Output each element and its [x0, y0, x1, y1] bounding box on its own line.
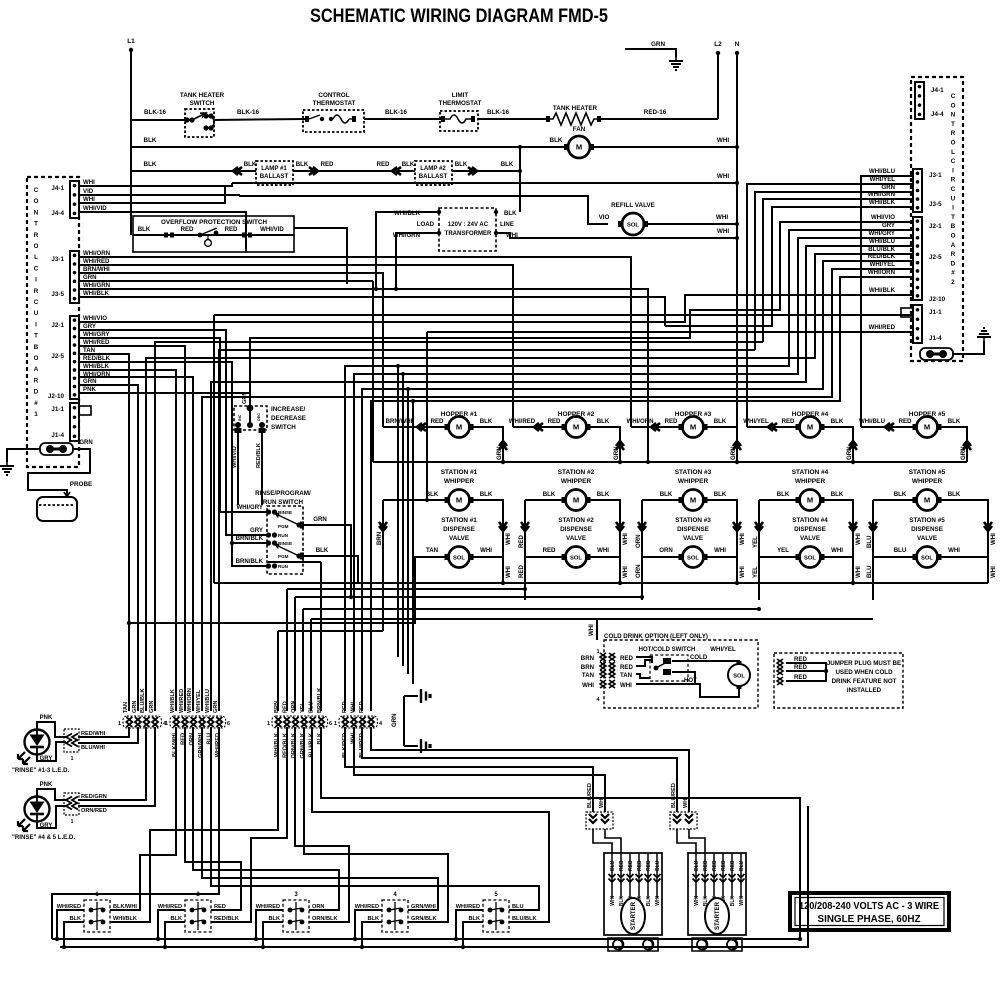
wire connector3 pin 1 to switch 1 [110, 727, 278, 922]
wire hopper 4 left [747, 426, 799, 428]
svg-text:SOL: SOL [570, 556, 582, 562]
svg-text:PNK: PNK [40, 782, 53, 788]
connector 6-pin #2 [170, 716, 226, 728]
arrow hopper 4 GRN up [849, 441, 857, 450]
connector J4 board1 [70, 181, 79, 218]
svg-text:RED/WHI: RED/WHI [81, 731, 106, 737]
solenoid cold drink [728, 661, 750, 689]
wire switch 1 BLK [64, 922, 84, 947]
svg-text:YEL: YEL [752, 566, 759, 578]
svg-text:DEC: DEC [257, 413, 261, 421]
wire WHI/BLU board2 to hopper5 [861, 176, 913, 427]
contacts switch 4 [387, 902, 404, 930]
wire GRN board2 to connector [219, 350, 755, 711]
svg-text:PGM: PGM [278, 524, 289, 529]
wire to earth ground [625, 49, 676, 57]
label control circuit board #1 [34, 187, 39, 418]
svg-text:WHIPPER: WHIPPER [678, 478, 709, 485]
svg-text:COLD: COLD [690, 654, 708, 661]
wire lamp2 BLK right [452, 170, 520, 172]
svg-text:BLK/RED: BLK/RED [587, 783, 593, 808]
svg-text:WHIPPER: WHIPPER [561, 478, 592, 485]
svg-text:BLU/BLK: BLU/BLK [140, 688, 146, 713]
connector led1 [64, 729, 79, 752]
wire whipper 1 right [470, 500, 503, 557]
svg-text:BLK: BLK [144, 137, 157, 144]
svg-text:SOL: SOL [733, 673, 745, 679]
svg-text:WHI: WHI [855, 533, 862, 545]
starter 1 connector [586, 812, 613, 829]
wire BRN to connector [277, 631, 279, 711]
svg-text:LAMP #2: LAMP #2 [420, 165, 446, 172]
overflow protection switch [133, 216, 294, 252]
arrow station 2 feed down [521, 522, 529, 531]
svg-text:STARTER: STARTER [631, 901, 637, 930]
svg-text:J2-1: J2-1 [51, 322, 64, 329]
wire BLK-16 segment 1 [131, 119, 187, 121]
svg-text:WHI/RED: WHI/RED [869, 324, 896, 331]
wire switch 4 BLK [362, 922, 382, 947]
svg-text:WHI: WHI [83, 179, 95, 186]
svg-text:"RINSE" #4 & 5 L.E.D.: "RINSE" #4 & 5 L.E.D. [12, 834, 75, 841]
svg-text:WHI: WHI [588, 624, 595, 636]
svg-text:BLK: BLK [455, 161, 468, 168]
svg-text:R: R [951, 177, 956, 184]
svg-text:ORN/RED: ORN/RED [81, 808, 107, 814]
connector J1 tab board2 [901, 308, 913, 317]
wire N vertical [736, 53, 738, 427]
svg-text:BLU/WHI: BLU/WHI [81, 745, 105, 751]
starter 2 wiring from connector [677, 829, 705, 853]
svg-text:RED: RED [620, 655, 633, 662]
svg-text:L1: L1 [127, 38, 135, 45]
arrow hopper 1 left [417, 423, 426, 431]
svg-text:RED: RED [359, 701, 365, 713]
svg-text:SOL: SOL [804, 556, 816, 562]
wire jack riser [403, 696, 405, 746]
svg-text:M: M [924, 496, 930, 505]
wire WHI J4-1 [79, 183, 232, 186]
stub [771, 364, 773, 366]
wire valve 3 feed [642, 500, 682, 557]
wire BLK-16 segment 4 [478, 118, 548, 120]
wire WHI/GRN transformer [396, 233, 439, 289]
svg-text:BALLAST: BALLAST [419, 173, 448, 180]
svg-text:STATION #3: STATION #3 [675, 469, 712, 476]
wire ORN/RED led2 [78, 727, 155, 806]
arrow hopper 5 left [885, 423, 894, 431]
motor hopper 4 [796, 417, 825, 438]
svg-text:WHI: WHI [717, 137, 729, 144]
wire whipper 2 left [525, 499, 565, 501]
svg-text:BLK: BLK [550, 137, 563, 144]
wire J1-1 drop [213, 315, 215, 583]
starter 1 overloads [608, 938, 658, 951]
svg-text:GRN: GRN [83, 274, 97, 281]
contacts switch 5 [488, 902, 505, 930]
svg-text:BLK: BLK [646, 896, 652, 907]
svg-text:M: M [807, 423, 813, 432]
connector J1 board2 [913, 305, 922, 343]
svg-text:THERMOSTAT: THERMOSTAT [439, 100, 482, 107]
svg-text:SOL: SOL [687, 556, 699, 562]
svg-text:RED: RED [181, 226, 194, 233]
tank heater element [546, 113, 601, 125]
wire BLK common to bus [321, 727, 800, 939]
svg-text:SOL: SOL [627, 223, 639, 229]
svg-text:STATION #2: STATION #2 [558, 517, 594, 524]
svg-text:COLD DRINK OPTION (LEFT ONLY): COLD DRINK OPTION (LEFT ONLY) [604, 633, 708, 640]
svg-text:BLK: BLK [144, 161, 157, 168]
svg-text:BLK: BLK [831, 418, 844, 425]
connector J3 board1 [70, 251, 79, 303]
svg-text:STATION #5: STATION #5 [909, 517, 945, 524]
svg-text:GRN: GRN [613, 446, 620, 460]
wire WHI/VIO J2-1 to board2 J2-10 [79, 295, 913, 322]
wire station 3 feed rail down [641, 557, 643, 600]
svg-text:GRY: GRY [40, 756, 53, 762]
wire J1-4 drop [426, 332, 428, 500]
svg-text:YEL: YEL [777, 547, 789, 554]
svg-text:TANK HEATER: TANK HEATER [180, 92, 225, 99]
svg-text:BLU: BLU [655, 860, 661, 871]
svg-text:BLK: BLK [244, 161, 257, 168]
wire TAN bus [129, 600, 415, 623]
wire WHI/GRN board2 to connector [155, 342, 763, 711]
wire valve 5 feed [873, 500, 916, 557]
svg-text:LINE: LINE [500, 221, 514, 228]
svg-text:WHI/VID: WHI/VID [260, 226, 284, 233]
wire station 3 WHI rail down [736, 557, 738, 583]
wire cold drink BRN feed [397, 366, 399, 657]
wire valve 4 feed [759, 500, 799, 557]
svg-text:VID: VID [83, 188, 94, 195]
svg-text:GRN: GRN [83, 378, 97, 385]
svg-text:1: 1 [334, 721, 337, 727]
wire WHI/YEL to solenoid [672, 661, 739, 664]
wire YEL bus [303, 608, 759, 610]
rinse program run switch [267, 506, 303, 574]
svg-text:R: R [34, 288, 39, 295]
wire connector3 pin 2 to switch 2 [211, 727, 287, 922]
svg-text:WHI: WHI [351, 702, 357, 713]
svg-text:WHI: WHI [622, 533, 629, 545]
svg-text:RED: RED [431, 418, 444, 425]
svg-text:WHI/RED: WHI/RED [179, 689, 185, 713]
svg-text:1: 1 [71, 756, 74, 762]
wire connector2 pin 5 to switch 5 [211, 727, 539, 910]
svg-text:WHIPPER: WHIPPER [444, 478, 475, 485]
svg-text:O: O [951, 233, 956, 240]
lamp #2 ballast [415, 161, 452, 185]
switch 3 box [283, 900, 309, 932]
wire switch 5 WHI/RED [456, 910, 483, 939]
svg-text:J4-1: J4-1 [51, 185, 64, 192]
svg-text:M: M [807, 496, 813, 505]
wire RED/BLK J2-6 to rinse switch [79, 362, 266, 543]
svg-text:T: T [951, 214, 955, 221]
svg-text:O: O [34, 198, 39, 205]
svg-text:N: N [951, 112, 956, 119]
connector 4-pin #4 [339, 716, 377, 728]
wire WHI/GRN J3-5 [79, 289, 648, 462]
svg-text:WHI: WHI [855, 566, 862, 578]
wire RED/BLK board2 crossing to connector4 [362, 261, 913, 711]
wire cold drink BRN feed 2 [402, 374, 404, 666]
wire WHI/VID increase out [237, 433, 239, 505]
svg-text:1: 1 [71, 819, 74, 825]
svg-text:6: 6 [329, 721, 332, 727]
svg-text:1: 1 [596, 649, 599, 655]
svg-text:WHI/YEL: WHI/YEL [710, 646, 736, 653]
wire hopper 4 right GRN rail [821, 427, 853, 462]
arrow lamp2 left [392, 167, 401, 175]
arrow hopper 3 GRN up [733, 441, 741, 450]
wire whipper 4 right [821, 500, 853, 557]
wire connector3 pin 3 to switch 3 [295, 727, 349, 922]
svg-text:DISPENSE: DISPENSE [911, 526, 943, 533]
svg-text:BRN/BLK: BRN/BLK [236, 535, 264, 542]
svg-text:WHI: WHI [739, 533, 746, 545]
svg-text:D: D [34, 389, 39, 396]
wire GRN rinse out [304, 525, 351, 597]
wire WHI/BLK board2 [665, 207, 913, 326]
svg-text:1: 1 [118, 721, 121, 727]
svg-text:RED: RED [283, 701, 289, 713]
svg-text:D: D [951, 260, 956, 267]
wire WHI/ORN board2 crossing to connector4 [371, 277, 913, 711]
arrow lamp1 left [233, 167, 242, 175]
svg-text:WHI: WHI [831, 547, 843, 554]
led RINSE 4-5 [18, 797, 50, 832]
wire connector2 pin 3 to switch 3 [193, 727, 339, 910]
svg-text:GRN: GRN [391, 713, 398, 727]
svg-text:PNK: PNK [83, 386, 96, 393]
solenoid station 5 dispense valve [913, 547, 942, 568]
wire overflow exit [294, 228, 347, 284]
svg-text:J4-4: J4-4 [931, 111, 944, 118]
arrow station 1 left down [379, 522, 387, 531]
svg-text:WHI: WHI [717, 173, 729, 180]
svg-text:RED: RED [225, 226, 238, 233]
svg-text:TAN: TAN [426, 547, 438, 554]
svg-text:WHI: WHI [620, 682, 632, 689]
svg-text:BLK: BLK [730, 896, 736, 907]
svg-text:BLU: BLU [866, 535, 873, 548]
wire BLK-16 segment 2 [214, 119, 305, 120]
svg-text:J2-5: J2-5 [51, 353, 64, 360]
wire switch 5 BLK [463, 922, 483, 947]
svg-text:RED: RED [703, 860, 709, 871]
svg-text:BLK: BLK [480, 418, 493, 425]
svg-text:WHI/ORN: WHI/ORN [83, 250, 110, 257]
starter 2 overloads [692, 938, 742, 951]
wire WHI transformer line [496, 233, 737, 238]
svg-text:WHI/GRY: WHI/GRY [83, 331, 110, 338]
wire WHI/BLU board2 to connector [211, 246, 913, 711]
wire GRY board2 crossing to connector4 [345, 230, 913, 711]
wire ORN to connector [294, 597, 296, 711]
svg-text:GRN: GRN [313, 516, 327, 523]
svg-text:J3-5: J3-5 [929, 201, 942, 208]
wire valve 5 right [938, 556, 988, 558]
svg-text:SOL: SOL [921, 556, 933, 562]
svg-text:WHI/BLK: WHI/BLK [869, 287, 896, 294]
svg-text:RINSE: RINSE [278, 541, 292, 546]
wire WHI/BLK J2-7 to connector [79, 370, 176, 711]
svg-text:SWITCH: SWITCH [271, 424, 296, 431]
wire BLU bus [311, 618, 873, 620]
svg-text:C: C [951, 158, 956, 165]
svg-text:RED: RED [794, 656, 807, 663]
wire switch 2 BLK [165, 922, 185, 947]
svg-text:WHI: WHI [948, 547, 960, 554]
svg-text:J1-1: J1-1 [929, 309, 942, 316]
svg-text:WHI/GRN: WHI/GRN [868, 191, 895, 198]
wire L1 vertical [130, 50, 132, 235]
svg-text:BLU: BLU [894, 547, 907, 554]
svg-text:WHI/RED: WHI/RED [83, 258, 110, 265]
wire connector2 pin 1 to switch 1 [110, 727, 176, 910]
svg-text:N: N [34, 209, 39, 216]
svg-text:STARTER: STARTER [715, 901, 721, 930]
svg-text:STATION #4: STATION #4 [792, 469, 829, 476]
svg-text:L: L [951, 149, 955, 156]
wire switch 3 BLK [263, 922, 283, 947]
wire GRN J2-9 to connector [79, 385, 138, 711]
wire bus bottom 2 [60, 806, 808, 947]
wire BRN/WHI J3-3 to hopper1 [79, 273, 383, 427]
svg-text:GRY: GRY [83, 323, 96, 330]
svg-text:WHI: WHI [83, 196, 95, 203]
svg-text:WHI: WHI [622, 566, 629, 578]
wire WHI fan row right [590, 146, 737, 148]
wire WHI to starter2 [371, 727, 689, 812]
svg-text:WHI: WHI [739, 566, 746, 578]
svg-text:GRN: GRN [881, 184, 895, 191]
wire board2 to ground [953, 341, 984, 354]
svg-text:WHI/YEL: WHI/YEL [196, 689, 202, 713]
svg-text:TAN: TAN [620, 672, 632, 679]
svg-text:RED: RED [782, 418, 795, 425]
wire WHI/GRN board2 [763, 199, 913, 342]
connector led2 [64, 793, 79, 815]
wire BRN/BLK to connector [320, 562, 322, 711]
svg-text:T: T [34, 221, 38, 228]
svg-text:C: C [34, 187, 39, 194]
svg-text:M: M [576, 143, 582, 152]
svg-text:C: C [34, 299, 39, 306]
svg-text:VIO: VIO [599, 214, 610, 221]
ground earth top [669, 57, 683, 70]
svg-text:RED: RED [342, 701, 348, 713]
svg-text:120/208-240 VOLTS AC - 3 WIRE: 120/208-240 VOLTS AC - 3 WIRE [799, 900, 939, 912]
svg-text:WHI: WHI [716, 214, 728, 221]
switch 4 box [382, 900, 408, 932]
wire BRN/BLK connector stub [268, 561, 321, 563]
svg-text:WHI/BLU: WHI/BLU [859, 418, 886, 425]
svg-text:WHI/BLU: WHI/BLU [869, 238, 896, 245]
wire hopper 3 right GRN rail [704, 427, 737, 462]
control circuit board #1 outline [27, 177, 79, 467]
wire GRY J2-2 to rinse switch [79, 330, 266, 535]
contacts switch 3 [288, 902, 305, 930]
svg-text:RED: RED [543, 547, 556, 554]
arrow hopper 3 left [651, 423, 660, 431]
wire TAN J2-5 to connector [79, 354, 129, 711]
wire YEL to connector [302, 609, 304, 711]
wire WHI/BLK J3-6 [79, 297, 665, 326]
svg-text:BLU: BLU [694, 860, 700, 871]
jack bottom [421, 739, 430, 753]
svg-text:VALVE: VALVE [800, 535, 820, 542]
svg-text:BLK: BLK [714, 418, 727, 425]
wire lamp1 to lamp2 [293, 170, 415, 172]
wire BLK drop to transformer [519, 147, 521, 212]
svg-text:J1-1: J1-1 [51, 406, 64, 413]
svg-text:RED: RED [712, 860, 718, 871]
svg-text:DRINK FEATURE NOT: DRINK FEATURE NOT [832, 678, 897, 685]
wire RED bus [287, 588, 525, 590]
svg-text:O: O [34, 243, 39, 250]
svg-text:A: A [951, 242, 956, 249]
wire WHI/RED J3-2 to hopper2 [79, 265, 513, 427]
arrow hopper 5 GRN up [963, 441, 971, 450]
connector cold drink [600, 653, 615, 688]
svg-text:SWITCH: SWITCH [190, 100, 215, 107]
svg-text:WHIPPER: WHIPPER [795, 478, 826, 485]
svg-text:BLK: BLK [660, 491, 673, 498]
arrow hopper 1 GRN up [499, 441, 507, 450]
wire led2 cathode loop [37, 806, 66, 828]
wire cold drink WHI feed [412, 401, 414, 684]
svg-text:WHI: WHI [582, 682, 594, 689]
svg-text:RED: RED [794, 674, 807, 681]
svg-text:SCHEMATIC WIRING DIAGRAM FMD-5: SCHEMATIC WIRING DIAGRAM FMD-5 [310, 6, 608, 27]
led RINSE 1-3 [18, 730, 50, 765]
svg-text:J2-10: J2-10 [48, 393, 65, 400]
wire led1 cathode loop [37, 742, 66, 761]
svg-text:RED: RED [899, 418, 912, 425]
svg-text:TAN: TAN [123, 702, 129, 713]
svg-text:LOAD: LOAD [417, 221, 435, 228]
svg-text:WHI/VID: WHI/VID [232, 446, 238, 468]
wire hopper 1 left [383, 426, 448, 428]
wire WHI/BLK transformer [376, 212, 439, 289]
wire RED to connector [286, 589, 288, 711]
svg-text:BLK: BLK [777, 491, 790, 498]
wire L2 vertical [717, 53, 719, 119]
svg-text:"RINSE" #1-3 L.E.D.: "RINSE" #1-3 L.E.D. [12, 767, 70, 774]
wire hopper 2 right GRN rail [587, 427, 620, 462]
svg-text:BLK: BLK [316, 547, 329, 554]
wire BLU/RED to starter2 [362, 727, 677, 812]
svg-text:RINSE: RINSE [278, 510, 292, 515]
wire whipper 2 right [587, 500, 620, 557]
wire station 2 WHI rail down [619, 557, 621, 583]
svg-text:SINGLE PHASE, 60HZ: SINGLE PHASE, 60HZ [818, 913, 922, 925]
svg-text:C: C [951, 186, 956, 193]
svg-text:RED: RED [721, 860, 727, 871]
svg-text:INCREASE/: INCREASE/ [271, 406, 306, 413]
wire overflow inner [133, 234, 294, 236]
connector J2 board2 [913, 217, 922, 300]
label control circuit board #2 [951, 93, 956, 286]
ground board1 [0, 462, 14, 475]
svg-text:BRN/BLK: BRN/BLK [317, 688, 323, 713]
svg-text:#: # [951, 270, 955, 277]
connector GRN plug board2 [920, 348, 953, 360]
